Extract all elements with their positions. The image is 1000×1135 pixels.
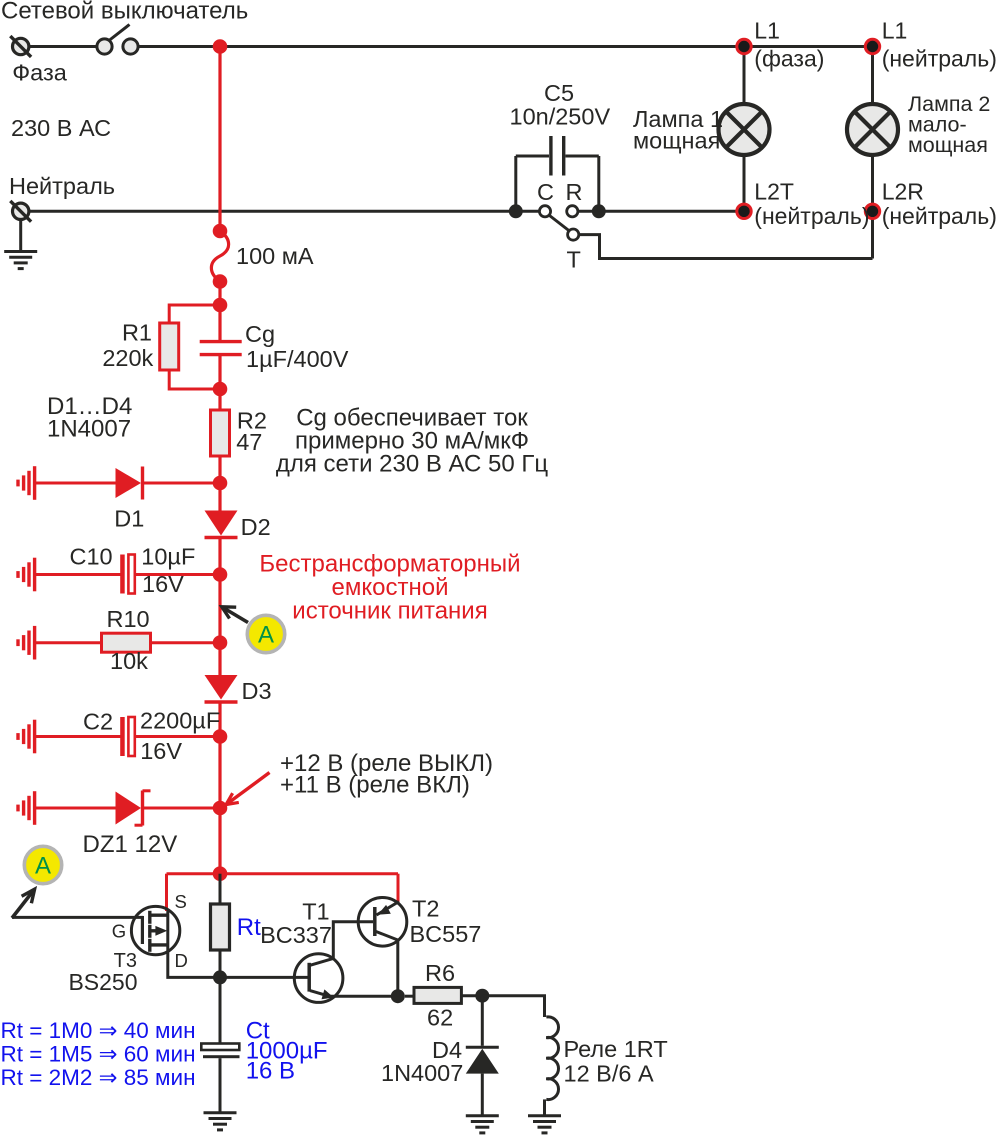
svg-text:(фаза): (фаза) bbox=[754, 46, 824, 72]
svg-text:S: S bbox=[175, 891, 187, 912]
svg-text:C: C bbox=[537, 179, 554, 205]
svg-text:BC557: BC557 bbox=[410, 921, 482, 947]
svg-text:16 В: 16 В bbox=[246, 1058, 295, 1085]
svg-text:230 В АС: 230 В АС bbox=[11, 115, 111, 141]
svg-text:Rt = 1M5 ⇒ 60 мин: Rt = 1M5 ⇒ 60 мин bbox=[1, 1042, 196, 1067]
svg-text:(нейтраль): (нейтраль) bbox=[882, 46, 997, 72]
svg-text:мощная: мощная bbox=[908, 133, 988, 157]
svg-text:L2T: L2T bbox=[754, 179, 794, 205]
svg-text:12 В/6 А: 12 В/6 А bbox=[564, 1061, 654, 1087]
svg-text:BS250: BS250 bbox=[68, 969, 137, 995]
svg-text:16V: 16V bbox=[142, 571, 184, 597]
svg-text:мощная: мощная bbox=[633, 128, 720, 154]
svg-text:Cg: Cg bbox=[245, 321, 275, 347]
svg-text:R1: R1 bbox=[122, 320, 152, 346]
svg-text:R6: R6 bbox=[425, 960, 455, 986]
svg-text:Реле 1RT: Реле 1RT bbox=[564, 1036, 668, 1062]
svg-text:R: R bbox=[566, 179, 583, 205]
svg-text:1µF/400V: 1µF/400V bbox=[246, 346, 349, 372]
svg-text:16V: 16V bbox=[140, 738, 182, 764]
svg-text:1N4007: 1N4007 bbox=[381, 1060, 463, 1086]
svg-text:T1: T1 bbox=[302, 899, 329, 925]
svg-text:L2R: L2R bbox=[882, 179, 924, 205]
svg-text:Rt: Rt bbox=[237, 914, 261, 941]
svg-text:C2: C2 bbox=[83, 709, 113, 735]
svg-text:10µF: 10µF bbox=[141, 544, 195, 570]
svg-text:2200µF: 2200µF bbox=[140, 708, 220, 734]
svg-text:R10: R10 bbox=[107, 606, 150, 632]
svg-text:+11 В (реле ВКЛ): +11 В (реле ВКЛ) bbox=[280, 772, 470, 799]
svg-text:47: 47 bbox=[236, 429, 262, 455]
svg-text:62: 62 bbox=[427, 1005, 453, 1031]
svg-text:C10: C10 bbox=[70, 544, 113, 570]
svg-text:Rt = 1M0 ⇒ 40 мин: Rt = 1M0 ⇒ 40 мин bbox=[1, 1018, 196, 1043]
svg-text:(нейтраль): (нейтраль) bbox=[754, 203, 869, 229]
svg-text:источник питания: источник питания bbox=[292, 597, 487, 624]
svg-text:220k: 220k bbox=[102, 345, 153, 371]
svg-text:D2: D2 bbox=[241, 514, 271, 540]
svg-text:C5: C5 bbox=[544, 80, 574, 106]
svg-text:Rt = 2M2 ⇒ 85 мин: Rt = 2M2 ⇒ 85 мин bbox=[1, 1065, 196, 1090]
svg-text:DZ1 12V: DZ1 12V bbox=[83, 831, 178, 858]
svg-text:10k: 10k bbox=[110, 648, 148, 674]
svg-text:T2: T2 bbox=[412, 896, 439, 922]
svg-text:А: А bbox=[258, 622, 274, 649]
svg-text:T: T bbox=[567, 247, 581, 273]
svg-text:BC337: BC337 bbox=[260, 922, 332, 948]
svg-text:10n/250V: 10n/250V bbox=[510, 104, 611, 130]
svg-text:100 мА: 100 мА bbox=[236, 243, 314, 269]
svg-text:для сети 230 В АС 50 Гц: для сети 230 В АС 50 Гц bbox=[276, 451, 549, 478]
svg-text:D3: D3 bbox=[242, 678, 272, 704]
svg-text:G: G bbox=[112, 921, 126, 942]
svg-text:D: D bbox=[175, 950, 188, 971]
svg-text:1N4007: 1N4007 bbox=[47, 416, 131, 443]
svg-text:А: А bbox=[35, 853, 51, 880]
svg-text:Фаза: Фаза bbox=[12, 60, 67, 86]
svg-text:Нейтраль: Нейтраль bbox=[9, 173, 115, 199]
svg-text:L1: L1 bbox=[882, 18, 908, 44]
svg-text:Сетевой выключатель: Сетевой выключатель bbox=[1, 0, 248, 25]
svg-text:L1: L1 bbox=[754, 18, 780, 44]
svg-text:D1: D1 bbox=[114, 506, 144, 532]
svg-text:(нейтраль): (нейтраль) bbox=[882, 203, 997, 229]
